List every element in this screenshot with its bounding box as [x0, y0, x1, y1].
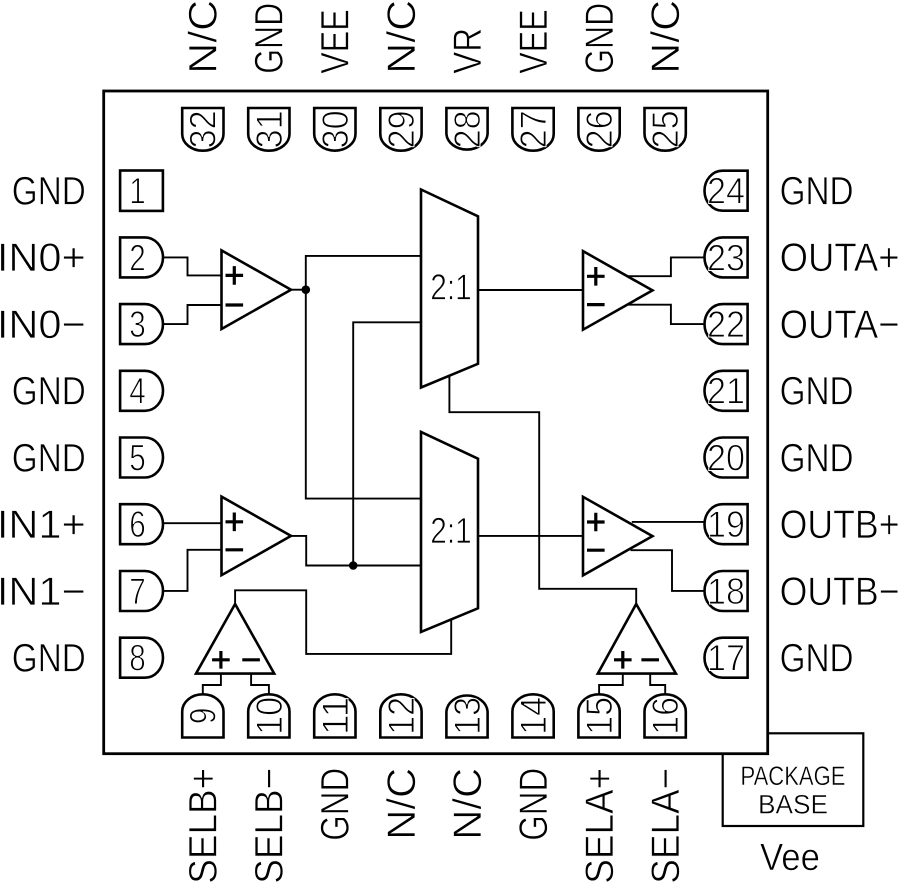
- pin 5: [120, 438, 163, 478]
- svg-text:GND: GND: [12, 370, 86, 414]
- pin 31: [248, 108, 289, 151]
- wire pin9 to U6 + input: [203, 674, 221, 695]
- package base box: [723, 733, 864, 826]
- op-amp U3 (OUTA output driver): [583, 251, 653, 330]
- svg-text:GND: GND: [780, 637, 854, 681]
- IC package outline: [104, 91, 768, 754]
- pin 14: [512, 694, 553, 737]
- svg-text:GND: GND: [780, 436, 854, 480]
- wire pin6 to U2 + input: [163, 522, 222, 524]
- svg-text:SELB+: SELB+: [182, 768, 226, 884]
- node B junction dot: [349, 561, 358, 570]
- svg-text:N/C: N/C: [446, 768, 490, 840]
- svg-text:24: 24: [707, 171, 745, 212]
- svg-text:GND: GND: [248, 3, 292, 74]
- pin 32: [182, 108, 223, 151]
- svg-text:PACKAGE: PACKAGE: [741, 761, 846, 791]
- pin 9: [182, 694, 223, 737]
- pin 27: [512, 108, 553, 151]
- pin 26: [578, 108, 619, 151]
- svg-text:17: 17: [707, 638, 745, 679]
- wire pin10 to U6 - input: [251, 674, 269, 695]
- svg-text:32: 32: [183, 110, 224, 148]
- svg-text:2:1: 2:1: [430, 510, 472, 551]
- svg-text:30: 30: [315, 110, 356, 148]
- pin 10: [248, 694, 289, 737]
- wire pin15 to U5 + input: [599, 674, 623, 695]
- pin 6: [120, 504, 163, 544]
- pin 21: [705, 371, 748, 411]
- svg-text:29: 29: [381, 110, 422, 148]
- svg-text:27: 27: [513, 110, 554, 148]
- svg-text:25: 25: [645, 110, 686, 148]
- U2 - input mark: [226, 548, 244, 551]
- pin 28: [446, 108, 487, 150]
- wire U1 output to node A: [291, 289, 306, 291]
- wire pin3 to U1 - input: [163, 305, 222, 324]
- svg-text:2:1: 2:1: [430, 266, 472, 307]
- op-amp U4 (OUTB output driver): [583, 497, 653, 576]
- svg-text:OUTB−: OUTB−: [780, 570, 900, 614]
- svg-text:BASE: BASE: [758, 790, 828, 820]
- wire node A to MUX2 upper input: [306, 290, 421, 499]
- pin 4: [120, 371, 163, 411]
- wire pin2 to U1 + input: [163, 257, 222, 275]
- svg-text:IN1−: IN1−: [0, 570, 86, 614]
- pin 2: [120, 237, 163, 277]
- pin 29: [380, 108, 421, 151]
- wire pin16 to U5 - input: [650, 674, 665, 695]
- svg-text:28: 28: [447, 110, 488, 148]
- svg-text:3: 3: [129, 304, 146, 345]
- pin 19: [705, 504, 748, 544]
- pin 20: [705, 438, 748, 478]
- wire node A to MUX1 upper input: [306, 256, 421, 290]
- svg-text:18: 18: [707, 571, 745, 612]
- pin 18: [705, 571, 748, 611]
- svg-text:13: 13: [447, 697, 488, 735]
- pin 25: [645, 108, 686, 151]
- mux MUX1 (channel A 2:1): [421, 190, 478, 388]
- svg-text:GND: GND: [512, 768, 556, 841]
- svg-text:10: 10: [249, 697, 290, 735]
- wire pin7 to U2 - input: [163, 550, 222, 591]
- wire U4 - output to pin18: [631, 550, 707, 591]
- svg-text:GND: GND: [780, 170, 854, 214]
- svg-text:GND: GND: [12, 637, 86, 681]
- svg-text:GND: GND: [12, 170, 86, 214]
- pin 30: [314, 108, 355, 151]
- pin 1: [120, 171, 163, 211]
- pin 17: [705, 638, 748, 678]
- U5 - input mark: [641, 658, 659, 661]
- svg-text:21: 21: [707, 371, 745, 412]
- svg-text:11: 11: [315, 697, 356, 735]
- svg-text:OUTA+: OUTA+: [780, 236, 900, 280]
- op-amp U2 (IN1 input buffer): [222, 497, 292, 576]
- svg-text:SELA−: SELA−: [644, 768, 688, 884]
- pin 22: [705, 304, 748, 344]
- svg-text:GND: GND: [12, 436, 86, 480]
- svg-text:2: 2: [129, 237, 146, 278]
- U4 + output mark: [587, 513, 605, 532]
- pin 3: [120, 304, 163, 344]
- wire U3 - output to pin22: [627, 305, 706, 324]
- U3 - output mark: [587, 303, 605, 306]
- svg-text:15: 15: [579, 697, 620, 735]
- pin 23: [705, 237, 748, 277]
- U4 - output mark: [587, 549, 605, 552]
- svg-text:31: 31: [249, 110, 290, 148]
- svg-text:N/C: N/C: [380, 768, 424, 840]
- svg-text:GND: GND: [314, 768, 358, 841]
- wire U4 + output to pin19: [632, 521, 706, 523]
- wire MUX1 output to U3 input: [478, 289, 583, 291]
- comparator U5 (SELA): [598, 604, 676, 674]
- svg-text:IN0−: IN0−: [0, 303, 86, 347]
- svg-text:VEE: VEE: [512, 9, 556, 74]
- svg-text:12: 12: [381, 697, 422, 735]
- svg-text:16: 16: [645, 697, 686, 735]
- svg-text:1: 1: [129, 171, 146, 212]
- U1 - input mark: [226, 303, 244, 306]
- package base label: [741, 761, 846, 820]
- pin 24: [705, 171, 748, 211]
- pin 8: [120, 638, 163, 678]
- wire MUX1 select to U5 comparator: [449, 376, 636, 605]
- node A junction dot: [302, 285, 311, 294]
- U6 - input mark: [242, 658, 260, 661]
- svg-text:N/C: N/C: [182, 0, 226, 74]
- pin 16: [645, 694, 686, 737]
- pin 11: [314, 694, 355, 737]
- wire MUX2 output to U4 input: [478, 535, 583, 537]
- svg-text:Vee: Vee: [760, 837, 820, 879]
- svg-text:26: 26: [579, 110, 620, 148]
- svg-text:OUTB+: OUTB+: [780, 503, 900, 547]
- svg-text:GND: GND: [780, 370, 854, 414]
- svg-text:7: 7: [129, 571, 146, 612]
- svg-text:14: 14: [513, 697, 554, 735]
- svg-text:VEE: VEE: [314, 9, 358, 74]
- pin 7: [120, 571, 163, 611]
- svg-text:9: 9: [183, 708, 224, 725]
- svg-text:22: 22: [707, 304, 745, 345]
- U3 + output mark: [587, 267, 605, 286]
- wire U3 + output to pin23: [627, 257, 706, 276]
- svg-text:8: 8: [129, 638, 146, 679]
- svg-text:4: 4: [129, 371, 146, 412]
- wire U2 output to node B: [291, 536, 421, 566]
- svg-text:23: 23: [707, 237, 745, 278]
- svg-text:5: 5: [129, 437, 146, 478]
- mux MUX2 (channel B 2:1): [421, 432, 478, 632]
- pin 15: [578, 694, 619, 737]
- U6 + input mark: [212, 651, 230, 669]
- svg-text:6: 6: [129, 504, 146, 545]
- U1 + input mark: [226, 266, 244, 285]
- svg-text:GND: GND: [578, 3, 622, 74]
- wire MUX2 select to U6 comparator: [235, 590, 451, 654]
- U5 + input mark: [614, 651, 632, 669]
- svg-text:IN0+: IN0+: [0, 236, 86, 280]
- U2 + input mark: [226, 513, 244, 532]
- op-amp U1 (IN0 input buffer): [222, 250, 292, 329]
- wire node B to MUX1 lower input: [353, 322, 421, 565]
- svg-text:N/C: N/C: [380, 0, 424, 74]
- comparator U6 (SELB): [196, 604, 274, 674]
- pin 12: [380, 694, 421, 737]
- svg-text:20: 20: [707, 437, 745, 478]
- svg-text:N/C: N/C: [644, 0, 688, 74]
- svg-text:19: 19: [707, 504, 745, 545]
- svg-text:SELA+: SELA+: [578, 768, 622, 884]
- svg-text:VR: VR: [446, 28, 490, 74]
- svg-text:OUTA−: OUTA−: [780, 303, 900, 347]
- svg-text:SELB−: SELB−: [248, 768, 292, 884]
- svg-text:IN1+: IN1+: [0, 503, 86, 547]
- pin 13: [446, 695, 487, 737]
